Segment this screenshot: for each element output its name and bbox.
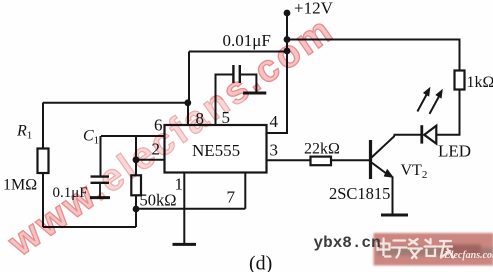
svg-text:VT2: VT2 (401, 162, 428, 181)
svg-text:Elecfans.com: Elecfans.com (443, 250, 493, 261)
ground 0.01uF (243, 92, 266, 95)
wire pin1 to ground (183, 173, 185, 245)
node dot rail-pin8 (284, 48, 291, 55)
watermark elecfans block (374, 233, 493, 266)
wire pin6 (101, 136, 165, 177)
wire pin2 branch (136, 136, 165, 175)
svg-text:22kΩ: 22kΩ (304, 141, 340, 158)
ground C1 (90, 196, 110, 199)
capacitor 0.01uF (233, 65, 239, 83)
resistor 22k (311, 157, 332, 166)
svg-text:LED: LED (438, 142, 471, 161)
transistor emitter with arrow (372, 163, 390, 176)
svg-text:1MΩ: 1MΩ (3, 177, 37, 194)
svg-text:7: 7 (227, 188, 236, 207)
svg-text:4: 4 (270, 112, 279, 131)
svg-text:3: 3 (270, 141, 279, 160)
wire emitter to ground (392, 177, 394, 215)
svg-text:NE555: NE555 (192, 141, 240, 160)
op-amp ic NE555 box (165, 125, 267, 173)
wire pin7 (136, 173, 245, 209)
svg-text:ybx8.cn: ybx8.cn (314, 234, 381, 252)
watermark www.elecfans.com saturated layer (0, 8, 342, 265)
wire 0.01uF right lead to ground (240, 75, 257, 92)
ground emitter (381, 214, 408, 217)
wire pin8 and R1 top rail (43, 52, 189, 126)
node dot +12V terminal (284, 10, 291, 17)
wire +12V rail (267, 13, 288, 133)
resistor R1 (38, 149, 49, 174)
svg-text:2SC1815: 2SC1815 (329, 184, 390, 203)
svg-text:50kΩ: 50kΩ (140, 191, 177, 210)
node dot 50k bottom (133, 206, 140, 213)
node dot pin2 junction (133, 156, 140, 163)
CJK brush strokes 电子发烧友 (377, 239, 453, 259)
svg-text:1kΩ: 1kΩ (467, 74, 493, 91)
LED diode (424, 126, 436, 144)
wire 50k bottom / bottom-left rail / R1 leads (43, 103, 136, 227)
ground pin1 (173, 243, 197, 246)
LED emission arrows (417, 88, 442, 114)
wire LED cathode to collector (372, 135, 422, 158)
svg-text:R1: R1 (16, 123, 32, 142)
svg-text:(d): (d) (249, 253, 272, 272)
wire pin5 to 0.01uF (216, 75, 234, 126)
svg-text:www.elecfans.com: www.elecfans.com (0, 8, 342, 265)
resistor 50k (131, 175, 141, 195)
node dot rail-1k (284, 36, 291, 43)
transistor Q VT2 base bar (369, 140, 372, 179)
resistor 1k (455, 71, 465, 90)
svg-text:C1: C1 (83, 128, 99, 147)
wire y51 to +12V rail (189, 51, 287, 53)
capacitor C1 (91, 177, 110, 183)
wire 1k bottom to LED anode (436, 90, 459, 135)
node dot pin8/R1 (184, 99, 191, 106)
wire +12V to 1k resistor (287, 40, 460, 71)
wire pin3 to base (267, 159, 371, 161)
watermark www.elecfans.com light central layer (0, 8, 342, 265)
